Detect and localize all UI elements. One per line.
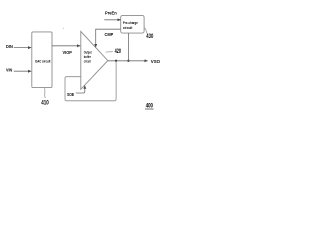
svg-text:Output: Output	[84, 50, 92, 54]
junction dot pre-charge/VSO	[127, 60, 129, 62]
svg-text:DAC circuit: DAC circuit	[35, 60, 51, 64]
wire VSO output	[108, 60, 148, 62]
wire DIN arrow into DAC	[14, 47, 31, 49]
wire PreEn arrow into pre-charge block	[104, 19, 120, 21]
junction dot feedback tap	[115, 60, 117, 62]
svg-text:420: 420	[115, 48, 122, 55]
speck (scan noise)	[63, 28, 64, 29]
leader 430	[144, 28, 147, 34]
svg-text:SOE: SOE	[67, 92, 75, 98]
pre-charge circuit label	[123, 20, 139, 30]
wire pre-charge output down to VSO line	[127, 33, 129, 61]
wire CMP: horizontal from pre-charge block, corner, down into buffer top edge	[96, 29, 121, 47]
svg-text:DIN: DIN	[6, 44, 13, 50]
svg-text:CMP: CMP	[105, 32, 114, 38]
svg-text:400: 400	[146, 103, 154, 110]
wire SOE into buffer bottom edge	[76, 86, 85, 93]
svg-text:circuit: circuit	[84, 60, 92, 64]
wire VIOP from DAC to buffer	[52, 45, 80, 47]
DAC circuit block 410	[32, 32, 52, 88]
svg-text:VIOP: VIOP	[63, 50, 73, 56]
leader 410	[44, 88, 47, 98]
op-amp output buffer 420 (triangle)	[81, 31, 108, 89]
svg-text:buffer: buffer	[84, 55, 92, 59]
pre-charge circuit block 430	[121, 15, 144, 33]
output buffer circuit label	[84, 50, 92, 63]
svg-text:PreEn: PreEn	[105, 11, 117, 17]
wire feedback loop from output to buffer inverting input	[65, 61, 116, 101]
svg-text:circuit: circuit	[123, 25, 133, 30]
wire VIN arrow into DAC	[14, 70, 31, 72]
svg-text:430: 430	[146, 34, 153, 40]
svg-text:VSO: VSO	[151, 59, 160, 65]
svg-text:VIN: VIN	[6, 68, 13, 74]
leader 420	[106, 51, 113, 52]
svg-text:410: 410	[41, 100, 49, 107]
